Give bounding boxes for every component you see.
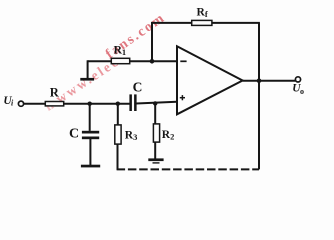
svg-text:Rf: Rf [197,6,208,18]
svg-text:R1: R1 [114,45,127,58]
svg-text:R2: R2 [162,129,175,142]
svg-text:R3: R3 [125,130,138,143]
svg-text:o: o [300,87,304,96]
svg-text:C: C [133,79,143,94]
svg-text:R: R [50,85,60,99]
svg-text:C: C [69,126,79,141]
